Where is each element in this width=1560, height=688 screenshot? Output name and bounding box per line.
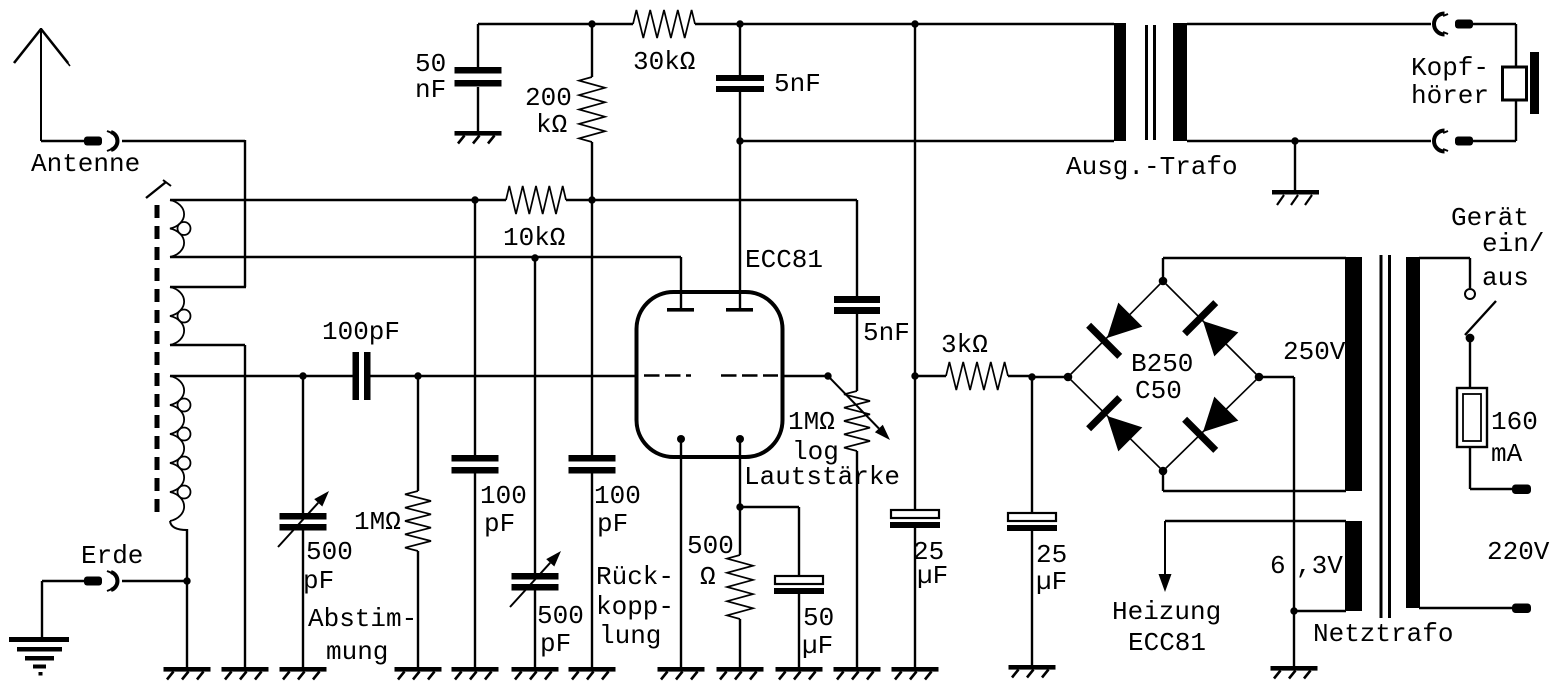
headphone jack bottom	[1434, 131, 1473, 152]
svg-text:Erde: Erde	[81, 541, 143, 571]
ground (feedback cap)	[512, 667, 559, 680]
label 30kΩ	[633, 47, 695, 77]
label 1MΩ	[354, 507, 401, 537]
wire pot to ground	[856, 451, 858, 667]
label B250 C50	[1131, 349, 1193, 406]
svg-text:lung: lung	[599, 621, 661, 651]
svg-text:250V: 250V	[1283, 337, 1346, 367]
label 3kΩ	[941, 330, 988, 360]
node grid-leak junction	[414, 372, 421, 379]
wire L2 top to antenna	[170, 286, 246, 288]
wire 5nF to anode node	[739, 92, 741, 141]
wire anode row	[740, 140, 1114, 142]
output transformer primary	[1114, 23, 1126, 141]
svg-text:,3V: ,3V	[1296, 551, 1343, 581]
cathode pin 2	[736, 435, 744, 555]
headphone earpiece	[1503, 52, 1540, 114]
label 10kΩ	[503, 223, 565, 253]
svg-text:Antenne: Antenne	[31, 149, 140, 179]
wire 1M to ground	[417, 551, 419, 667]
svg-text:500: 500	[306, 537, 353, 567]
wire 50µF to ground	[798, 594, 800, 667]
svg-text:mA: mA	[1491, 439, 1523, 469]
coil core (dashed)	[146, 180, 171, 520]
wire rail to 50nF	[477, 24, 479, 68]
svg-text:5nF: 5nF	[863, 318, 910, 348]
label Netztrafo	[1313, 619, 1453, 649]
label 5nF	[774, 69, 821, 99]
svg-text:µF: µF	[1036, 567, 1067, 597]
transformer heater winding	[1345, 521, 1362, 611]
label 1MΩ log	[788, 407, 839, 467]
wire top rail right	[695, 23, 1114, 25]
wire tuning cap to ground	[302, 530, 304, 667]
node rail-HT	[911, 20, 918, 27]
tube ECC81 envelope	[637, 292, 783, 457]
svg-text:kΩ: kΩ	[536, 110, 567, 140]
label 500 pF	[303, 537, 353, 596]
wire rail to 200k	[591, 24, 593, 77]
ground (50µF)	[776, 667, 823, 680]
svg-text:10kΩ: 10kΩ	[503, 223, 565, 253]
wire 5nF to pot	[856, 314, 858, 391]
label Abstimmung	[308, 604, 417, 667]
svg-text:5nF: 5nF	[774, 69, 821, 99]
ground (pot)	[834, 667, 881, 680]
wire 100pF to ground	[474, 473, 476, 667]
label Heizung ECC81	[1112, 597, 1221, 658]
ground (25µF left)	[892, 667, 939, 680]
rectifier bridge B250 C50	[1064, 277, 1264, 476]
svg-text:ein/: ein/	[1482, 229, 1544, 259]
label 50 nF	[415, 49, 446, 105]
capacitor 5nF (anode)	[716, 75, 764, 92]
svg-text:Lautstärke: Lautstärke	[744, 462, 900, 492]
earth plug connector	[42, 571, 187, 591]
resistor 200kΩ	[579, 77, 605, 142]
ground (50nF)	[455, 131, 502, 144]
capacitor 25µF (HT filter 1)	[1007, 513, 1057, 531]
wire fuse to terminal	[1470, 447, 1513, 489]
svg-text:3kΩ: 3kΩ	[941, 330, 988, 360]
transformer mains winding	[1406, 257, 1420, 608]
capacitor 5nF (coupling)	[834, 296, 880, 314]
wire grid junction to tube	[418, 375, 638, 377]
coil L1 (feedback winding)	[170, 200, 191, 257]
capacitor 50nF	[455, 67, 502, 87]
svg-text:500: 500	[537, 601, 584, 631]
wire bridge minus down	[1259, 377, 1294, 666]
ground (100pF left)	[452, 667, 499, 680]
wire headphone loop	[1472, 24, 1516, 141]
wire feedback cap to ground	[534, 590, 536, 667]
node feedback junction	[531, 254, 538, 261]
label 50 µF	[802, 603, 834, 661]
terminal 220V bottom	[1512, 604, 1531, 614]
coil L2 (antenna winding)	[170, 287, 191, 345]
switch Gerät ein/aus	[1465, 289, 1496, 342]
label Ausg.-Trafo	[1066, 152, 1238, 182]
wire mains bottom	[1419, 607, 1513, 609]
svg-text:Ω: Ω	[700, 562, 716, 592]
svg-text:ECC81: ECC81	[1128, 628, 1206, 658]
coil L3 (tuned winding)	[170, 376, 191, 530]
wire bridge bottom to HV	[1163, 471, 1346, 491]
label 200 kΩ	[525, 83, 572, 140]
node cathode 2 junction	[736, 503, 743, 510]
svg-text:25: 25	[1036, 540, 1067, 570]
wire L1 top to 10k	[170, 199, 475, 201]
ground (1M)	[395, 667, 442, 680]
ground (tuning cap)	[280, 667, 327, 680]
svg-text:30kΩ: 30kΩ	[633, 47, 695, 77]
svg-text:Rück-: Rück-	[596, 562, 674, 592]
anode plate 1	[667, 308, 694, 312]
earth ground symbol	[9, 581, 69, 676]
ground (500Ω)	[717, 667, 764, 680]
label 500 pF (feedback)	[537, 601, 584, 659]
capacitor 100pF coupling	[353, 352, 371, 400]
node headphone ground junction	[1291, 137, 1298, 144]
wire 6.3V to heater	[1159, 521, 1347, 592]
svg-text:µF: µF	[917, 561, 948, 591]
svg-text:pF: pF	[303, 566, 334, 596]
node 10k left junction	[471, 196, 478, 203]
cathode pin 1	[677, 435, 685, 667]
ground (cathode 1)	[658, 667, 705, 680]
svg-text:100: 100	[480, 481, 527, 511]
label 160 mA	[1491, 407, 1538, 469]
wire anode 1 pin	[680, 257, 682, 309]
resistor 30kΩ	[633, 10, 695, 38]
svg-text:aus: aus	[1482, 263, 1529, 293]
ground (headphone)	[1272, 141, 1319, 205]
transformer HV winding 250V	[1345, 257, 1362, 491]
wire grid 2 out	[783, 375, 828, 377]
variable capacitor 500pF feedback	[510, 551, 561, 607]
label ECC81	[745, 245, 823, 275]
terminal 220V top	[1512, 485, 1531, 495]
label Erde	[81, 541, 143, 571]
svg-text:B250: B250	[1131, 349, 1193, 379]
wire grid junction to 1M	[417, 376, 419, 491]
capacitor 100pF (anode filter 1)	[452, 455, 499, 474]
label Gerät ein/aus	[1451, 203, 1544, 293]
label Antenne	[31, 149, 140, 179]
capacitor 25µF (HT filter 2)	[890, 510, 940, 528]
svg-text:hörer: hörer	[1411, 81, 1489, 111]
potentiometer wiper arrow	[828, 376, 890, 440]
wire to 50µF	[740, 507, 799, 577]
wire 200k junction to volume cap	[592, 200, 857, 297]
svg-text:pF: pF	[540, 629, 571, 659]
label 100pF	[322, 317, 400, 347]
fuse 160mA	[1457, 388, 1487, 447]
wire to tuning cap	[302, 376, 304, 514]
wire secondary top	[1187, 23, 1431, 25]
wire 6.3V return	[1294, 610, 1346, 612]
svg-text:mung: mung	[326, 637, 388, 667]
transformer core	[1381, 255, 1390, 618]
node earth junction	[183, 577, 190, 584]
wire secondary bottom	[1187, 140, 1431, 142]
ground (antenna winding)	[222, 667, 269, 680]
svg-text:pF: pF	[597, 509, 628, 539]
capacitor 50µF	[774, 576, 824, 594]
label 5nF (coupling)	[863, 318, 910, 348]
output transformer core	[1147, 25, 1155, 140]
label 220V	[1487, 537, 1550, 567]
svg-text:kopp-: kopp-	[596, 592, 674, 622]
wire 200k line down	[591, 200, 593, 456]
wire anode 2 pin	[739, 141, 741, 309]
capacitor 100pF (anode filter 2)	[569, 455, 616, 474]
svg-text:C50: C50	[1135, 376, 1182, 406]
anode plate 2	[726, 308, 753, 312]
label 6,3V	[1270, 551, 1343, 581]
wire switch to fuse	[1469, 338, 1471, 388]
label 25 µF (left)	[913, 537, 948, 591]
node grid 2 junction	[824, 372, 831, 379]
resistor 500Ω	[727, 555, 753, 619]
label 25 µF (right)	[1036, 540, 1067, 597]
output transformer secondary	[1173, 23, 1187, 141]
wire antenna to plug	[41, 140, 84, 142]
svg-text:Heizung: Heizung	[1112, 597, 1221, 627]
svg-text:1MΩ: 1MΩ	[788, 407, 835, 437]
label Lautstärke	[744, 462, 900, 492]
svg-text:200: 200	[525, 83, 572, 113]
wire L1 bottom to anode 1	[170, 256, 681, 258]
svg-text:220V: 220V	[1487, 537, 1550, 567]
wire coil L3 bottom to ground	[186, 529, 188, 667]
wire feedback junction down	[534, 258, 536, 574]
wire C-coupling to grid junction	[370, 375, 418, 377]
svg-text:Ausg.-Trafo: Ausg.-Trafo	[1066, 152, 1238, 182]
svg-text:Netztrafo: Netztrafo	[1313, 619, 1453, 649]
svg-text:Abstim-: Abstim-	[308, 604, 417, 634]
ground (25µF right)	[1009, 665, 1056, 678]
svg-text:6: 6	[1270, 551, 1286, 581]
node rail-5nF	[736, 20, 743, 27]
wire 100pF2 to ground	[591, 473, 593, 667]
variable capacitor 500pF tuning	[278, 491, 329, 547]
resistor 3kΩ	[915, 362, 1034, 390]
node 200k junction	[588, 196, 595, 203]
wire 500Ω to ground	[739, 619, 741, 667]
grid (dashed)	[644, 374, 778, 376]
label 500 Ω	[687, 531, 734, 592]
label 100 pF (right)	[594, 481, 641, 539]
node tuning junction	[299, 372, 306, 379]
antenna symbol	[14, 28, 70, 141]
ground (mains)	[1271, 666, 1318, 679]
svg-text:µF: µF	[802, 631, 833, 661]
node anode 2	[736, 137, 743, 144]
wire to 25µF 2	[1031, 377, 1033, 514]
svg-text:nF: nF	[415, 75, 446, 105]
wire 25µF2 to ground	[1031, 531, 1033, 665]
svg-text:ECC81: ECC81	[745, 245, 823, 275]
node 3k junction	[911, 372, 918, 379]
wire L2 bottom down	[170, 345, 245, 667]
wire to rectifier	[1032, 376, 1068, 378]
label 100 pF (left)	[480, 481, 527, 539]
ground (100pF right)	[569, 667, 616, 680]
wire 200k to junction	[591, 142, 593, 200]
wire junction down to 100pF	[474, 200, 476, 456]
wire 50nF to ground	[477, 87, 479, 131]
antenna plug connector	[84, 131, 117, 151]
node 25µF junction	[1028, 373, 1035, 380]
label Rückkopplung	[596, 562, 674, 651]
wire mains top	[1419, 258, 1470, 288]
svg-text:1MΩ: 1MΩ	[354, 507, 401, 537]
resistor 1M grid leak	[405, 491, 431, 551]
wire bridge top to HV	[1163, 258, 1346, 281]
label Kopfhörer	[1411, 53, 1489, 111]
svg-text:160: 160	[1491, 407, 1538, 437]
wire 25µF to ground	[914, 528, 916, 667]
label 250V	[1283, 337, 1346, 367]
wire plug to coil top	[122, 140, 245, 287]
svg-text:100pF: 100pF	[322, 317, 400, 347]
potentiometer 1MΩ log	[844, 391, 870, 451]
wire rail to 5nF	[739, 24, 741, 76]
wire top rail left	[478, 23, 633, 25]
svg-text:100: 100	[594, 481, 641, 511]
svg-text:pF: pF	[484, 509, 515, 539]
svg-text:Kopf-: Kopf-	[1411, 53, 1489, 83]
wire HT vertical	[914, 24, 916, 511]
node rail-200k	[588, 20, 595, 27]
wire L3 top to C-coupling	[170, 375, 353, 377]
svg-text:50: 50	[803, 603, 834, 633]
svg-text:500: 500	[687, 531, 734, 561]
resistor 10kΩ	[475, 186, 592, 214]
ground (coil return)	[164, 667, 211, 680]
headphone jack top	[1434, 14, 1473, 35]
node heater return	[1290, 607, 1297, 614]
